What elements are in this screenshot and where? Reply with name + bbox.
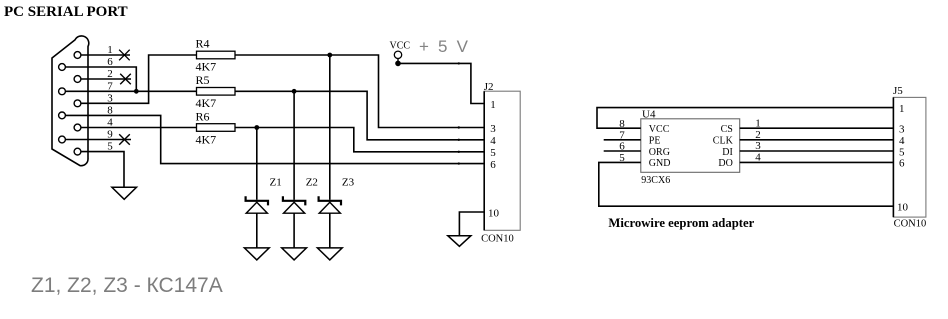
zener diode Z1 <box>246 196 268 213</box>
wire DB9 pin3 up to R4 <box>81 55 197 103</box>
wire Z2 to ground <box>293 213 295 248</box>
resistor R6 <box>197 124 236 132</box>
wire R5 to J2 pin4 <box>235 91 484 140</box>
svg-text:Microwire eeprom adapter: Microwire eeprom adapter <box>608 216 754 230</box>
svg-text:6: 6 <box>490 159 496 171</box>
svg-text:R5: R5 <box>196 73 210 87</box>
ground under DB9 <box>112 187 137 199</box>
svg-text:93CX6: 93CX6 <box>641 175 670 186</box>
wire Z3 anode drop <box>329 55 331 200</box>
svg-text:DO: DO <box>718 158 732 169</box>
no-connect X pin2 <box>120 74 131 85</box>
svg-text:J5: J5 <box>893 85 903 97</box>
wire U4 CS to J5 pin3 <box>740 127 894 129</box>
svg-text:Z2: Z2 <box>306 177 318 189</box>
wire Z2 anode drop <box>293 91 295 200</box>
svg-text:VCC: VCC <box>649 124 670 135</box>
connector J2 box <box>484 91 520 230</box>
wire DB9 pin7 to R5 <box>65 90 196 92</box>
ground under Z2 <box>282 248 307 260</box>
svg-text:10: 10 <box>488 207 500 219</box>
resistor R4 <box>197 51 236 59</box>
J5 box left edge <box>892 97 894 217</box>
wire DB9 pin9 stub <box>65 139 131 141</box>
zener diode Z2 <box>283 196 305 213</box>
wire joints near J2 <box>458 62 460 165</box>
wire Z1 anode drop <box>256 128 258 200</box>
svg-text:Z1, Z2, Z3 - КС147А: Z1, Z2, Z3 - КС147А <box>31 274 223 297</box>
svg-text:CS: CS <box>721 124 733 135</box>
svg-text:CLK: CLK <box>713 136 734 147</box>
svg-text:Z1: Z1 <box>270 177 282 189</box>
wire U4 DI to J5 pin5 <box>740 150 894 152</box>
VCC stem <box>397 58 399 63</box>
junction R5/Z2 <box>292 89 297 94</box>
junction VCC <box>395 61 401 67</box>
svg-text:PC SERIAL PORT: PC SERIAL PORT <box>4 4 128 20</box>
svg-text:5: 5 <box>899 146 905 158</box>
wire DB9 pin2 stub <box>81 78 131 80</box>
svg-text:CON10: CON10 <box>481 234 514 245</box>
svg-text:3: 3 <box>490 123 496 135</box>
svg-text:3: 3 <box>899 124 905 136</box>
junction R6/Z1 <box>254 125 259 130</box>
svg-text:1: 1 <box>899 103 905 115</box>
svg-text:VCC: VCC <box>390 41 411 52</box>
no-connect X pin9 <box>119 134 130 145</box>
junction pin6/pin7 <box>134 89 139 94</box>
svg-text:J2: J2 <box>484 81 494 93</box>
svg-text:R6: R6 <box>196 109 210 123</box>
zener diode Z3 <box>319 196 341 213</box>
wire U4 pin7 PE stub <box>604 139 641 141</box>
ground under Z1 <box>244 248 269 260</box>
wire Z1 to ground <box>256 213 258 248</box>
wire Z3 to ground <box>329 213 331 248</box>
svg-text:R4: R4 <box>196 37 210 51</box>
wire DB9 pin1 stub <box>81 54 130 56</box>
wire R4 to J2 pin3 <box>235 55 484 128</box>
svg-text:U4: U4 <box>642 108 656 120</box>
wire U4 DO to J5 pin6 <box>740 161 894 163</box>
wire J2 pin10 to ground <box>459 212 484 236</box>
svg-text:6: 6 <box>899 158 905 170</box>
wire DB9 pin8 to J2 pin6 <box>65 115 484 163</box>
svg-text:PE: PE <box>649 136 661 147</box>
wire R6 to J2 pin5 <box>235 128 484 152</box>
svg-text:10: 10 <box>897 202 909 214</box>
power VCC symbol <box>394 51 401 58</box>
svg-text:4K7: 4K7 <box>196 133 217 147</box>
connector DB9 body <box>52 36 89 166</box>
wire DB9 pin6 down to pin7 net <box>65 67 136 91</box>
wire U4 CLK to J5 pin4 <box>740 139 894 141</box>
svg-text:+ 5 V: + 5 V <box>419 37 470 56</box>
wire DB9 pin5 to ground <box>81 152 124 188</box>
J2 box left edge <box>483 91 485 230</box>
svg-text:Z3: Z3 <box>342 177 355 189</box>
svg-text:4: 4 <box>490 135 496 147</box>
wire DB9 pin4 to R6 <box>81 127 197 129</box>
resistor R5 <box>197 88 236 96</box>
svg-text:4: 4 <box>899 135 905 147</box>
wire U4 pin5 GND to J5 pin10 <box>599 162 894 206</box>
junction R4/Z3 <box>327 53 332 58</box>
svg-text:CON10: CON10 <box>894 219 927 230</box>
svg-text:DI: DI <box>722 147 733 158</box>
wire VCC to J2 pin1 <box>398 63 484 103</box>
svg-text:4K7: 4K7 <box>196 60 217 74</box>
svg-text:5: 5 <box>490 147 496 159</box>
svg-text:1: 1 <box>490 99 496 111</box>
ground under J2 <box>448 236 471 247</box>
svg-text:GND: GND <box>649 158 671 169</box>
wire U4 pin8 VCC to J5 pin1 <box>597 108 893 129</box>
no-connect X pin1 <box>119 50 130 61</box>
svg-text:4K7: 4K7 <box>196 96 217 110</box>
wire U4 pin6 ORG stub <box>604 150 641 152</box>
DB9 pin holes <box>59 52 81 155</box>
IC U4 box <box>641 119 740 173</box>
connector J5 box <box>893 97 926 217</box>
ground under Z3 <box>317 248 342 260</box>
svg-text:ORG: ORG <box>649 147 670 158</box>
